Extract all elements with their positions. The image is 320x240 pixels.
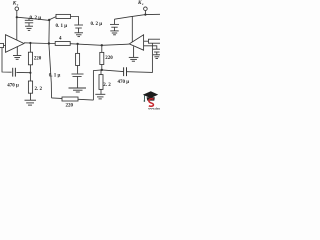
ground: [110, 31, 118, 35]
wire: [144, 40, 149, 42]
node junction: [29, 42, 103, 47]
svg-text:www.dzsc.com: www.dzsc.com: [148, 106, 160, 110]
wire: [144, 46, 157, 49]
resistor R4a (4 ohm): [55, 42, 70, 46]
wire: [115, 14, 161, 19]
label Kc left: [12, 1, 19, 7]
wire power drop U2: [131, 16, 133, 42]
label 220: [66, 103, 74, 108]
resistor R3 2.2: [28, 73, 32, 100]
resistor R6: [149, 39, 162, 43]
resistor R2 220: [28, 43, 32, 72]
svg-text:0. 1 μ: 0. 1 μ: [56, 24, 68, 29]
label 470u: [118, 80, 130, 85]
capacitor C7 0.1u: [72, 74, 84, 88]
ground (under U1): [13, 46, 21, 59]
svg-text:220: 220: [105, 56, 113, 61]
op-amp U1: [6, 35, 25, 53]
op-amp U2: [129, 35, 143, 50]
capacitor C6: [153, 49, 161, 55]
label 470u: [7, 83, 19, 88]
resistor R7 2.2: [99, 70, 103, 94]
label 4: [59, 37, 62, 42]
power terminal Ec left: [15, 7, 19, 11]
svg-text:4: 4: [59, 37, 62, 42]
label 2.2: [103, 83, 111, 88]
logo watermark: [143, 91, 168, 110]
wire output bus: [24, 43, 129, 46]
wire: [49, 20, 52, 98]
ground: [95, 94, 105, 99]
resistor Rin: [0, 43, 3, 47]
capacitor C3 470u: [13, 68, 16, 77]
capacitor C4 0.2u: [110, 19, 119, 31]
node junction: [29, 72, 31, 74]
svg-text:2. 2: 2. 2: [35, 87, 43, 92]
resistor Rz (zobel): [76, 44, 80, 74]
label 0.2u: [30, 16, 42, 21]
resistor R5 220: [100, 45, 104, 70]
wire: [17, 17, 56, 21]
ground: [153, 55, 161, 59]
svg-text:2. 2: 2. 2: [103, 83, 111, 88]
wire: [16, 11, 18, 40]
wire: [4, 45, 6, 47]
label Kc right: [137, 0, 144, 6]
svg-text:0. 2 μ: 0. 2 μ: [91, 22, 103, 27]
wire: [2, 48, 12, 73]
resistor R1: [56, 14, 71, 18]
svg-text:c: c: [17, 3, 19, 7]
capacitor C5 470u: [124, 67, 127, 76]
ground: [69, 88, 87, 92]
power terminal Ec right: [144, 7, 148, 11]
wire: [102, 70, 124, 72]
label 0.2u: [91, 22, 103, 27]
ground: [75, 33, 84, 37]
svg-text:220: 220: [34, 56, 42, 61]
wire: [71, 17, 79, 25]
node junction: [48, 19, 50, 21]
svg-text:0. 2 μ: 0. 2 μ: [30, 16, 42, 21]
wire: [93, 70, 101, 100]
svg-text:c: c: [142, 2, 144, 6]
svg-text:470 μ: 470 μ: [118, 80, 130, 85]
node junction: [101, 69, 103, 71]
label 2.2: [35, 87, 43, 92]
node junction: [144, 14, 146, 16]
label 0.1u: [56, 24, 68, 29]
wire: [52, 98, 94, 100]
resistor R4 220: [62, 97, 78, 101]
ground: [25, 26, 33, 30]
wire: [16, 71, 30, 73]
svg-text:0. 1 μ: 0. 1 μ: [49, 74, 61, 79]
capacitor C2 0.1u: [74, 25, 83, 33]
wire: [127, 43, 153, 72]
svg-text:470 μ: 470 μ: [7, 83, 19, 88]
capacitor C1 0.2u: [25, 18, 33, 26]
wire: [144, 11, 146, 15]
ground (under U2): [129, 46, 139, 61]
node junction: [16, 16, 18, 18]
svg-text:220: 220: [66, 103, 74, 108]
label 220: [105, 56, 113, 61]
ground: [25, 100, 37, 105]
label 0.1u: [49, 74, 61, 79]
label 220: [34, 56, 42, 61]
